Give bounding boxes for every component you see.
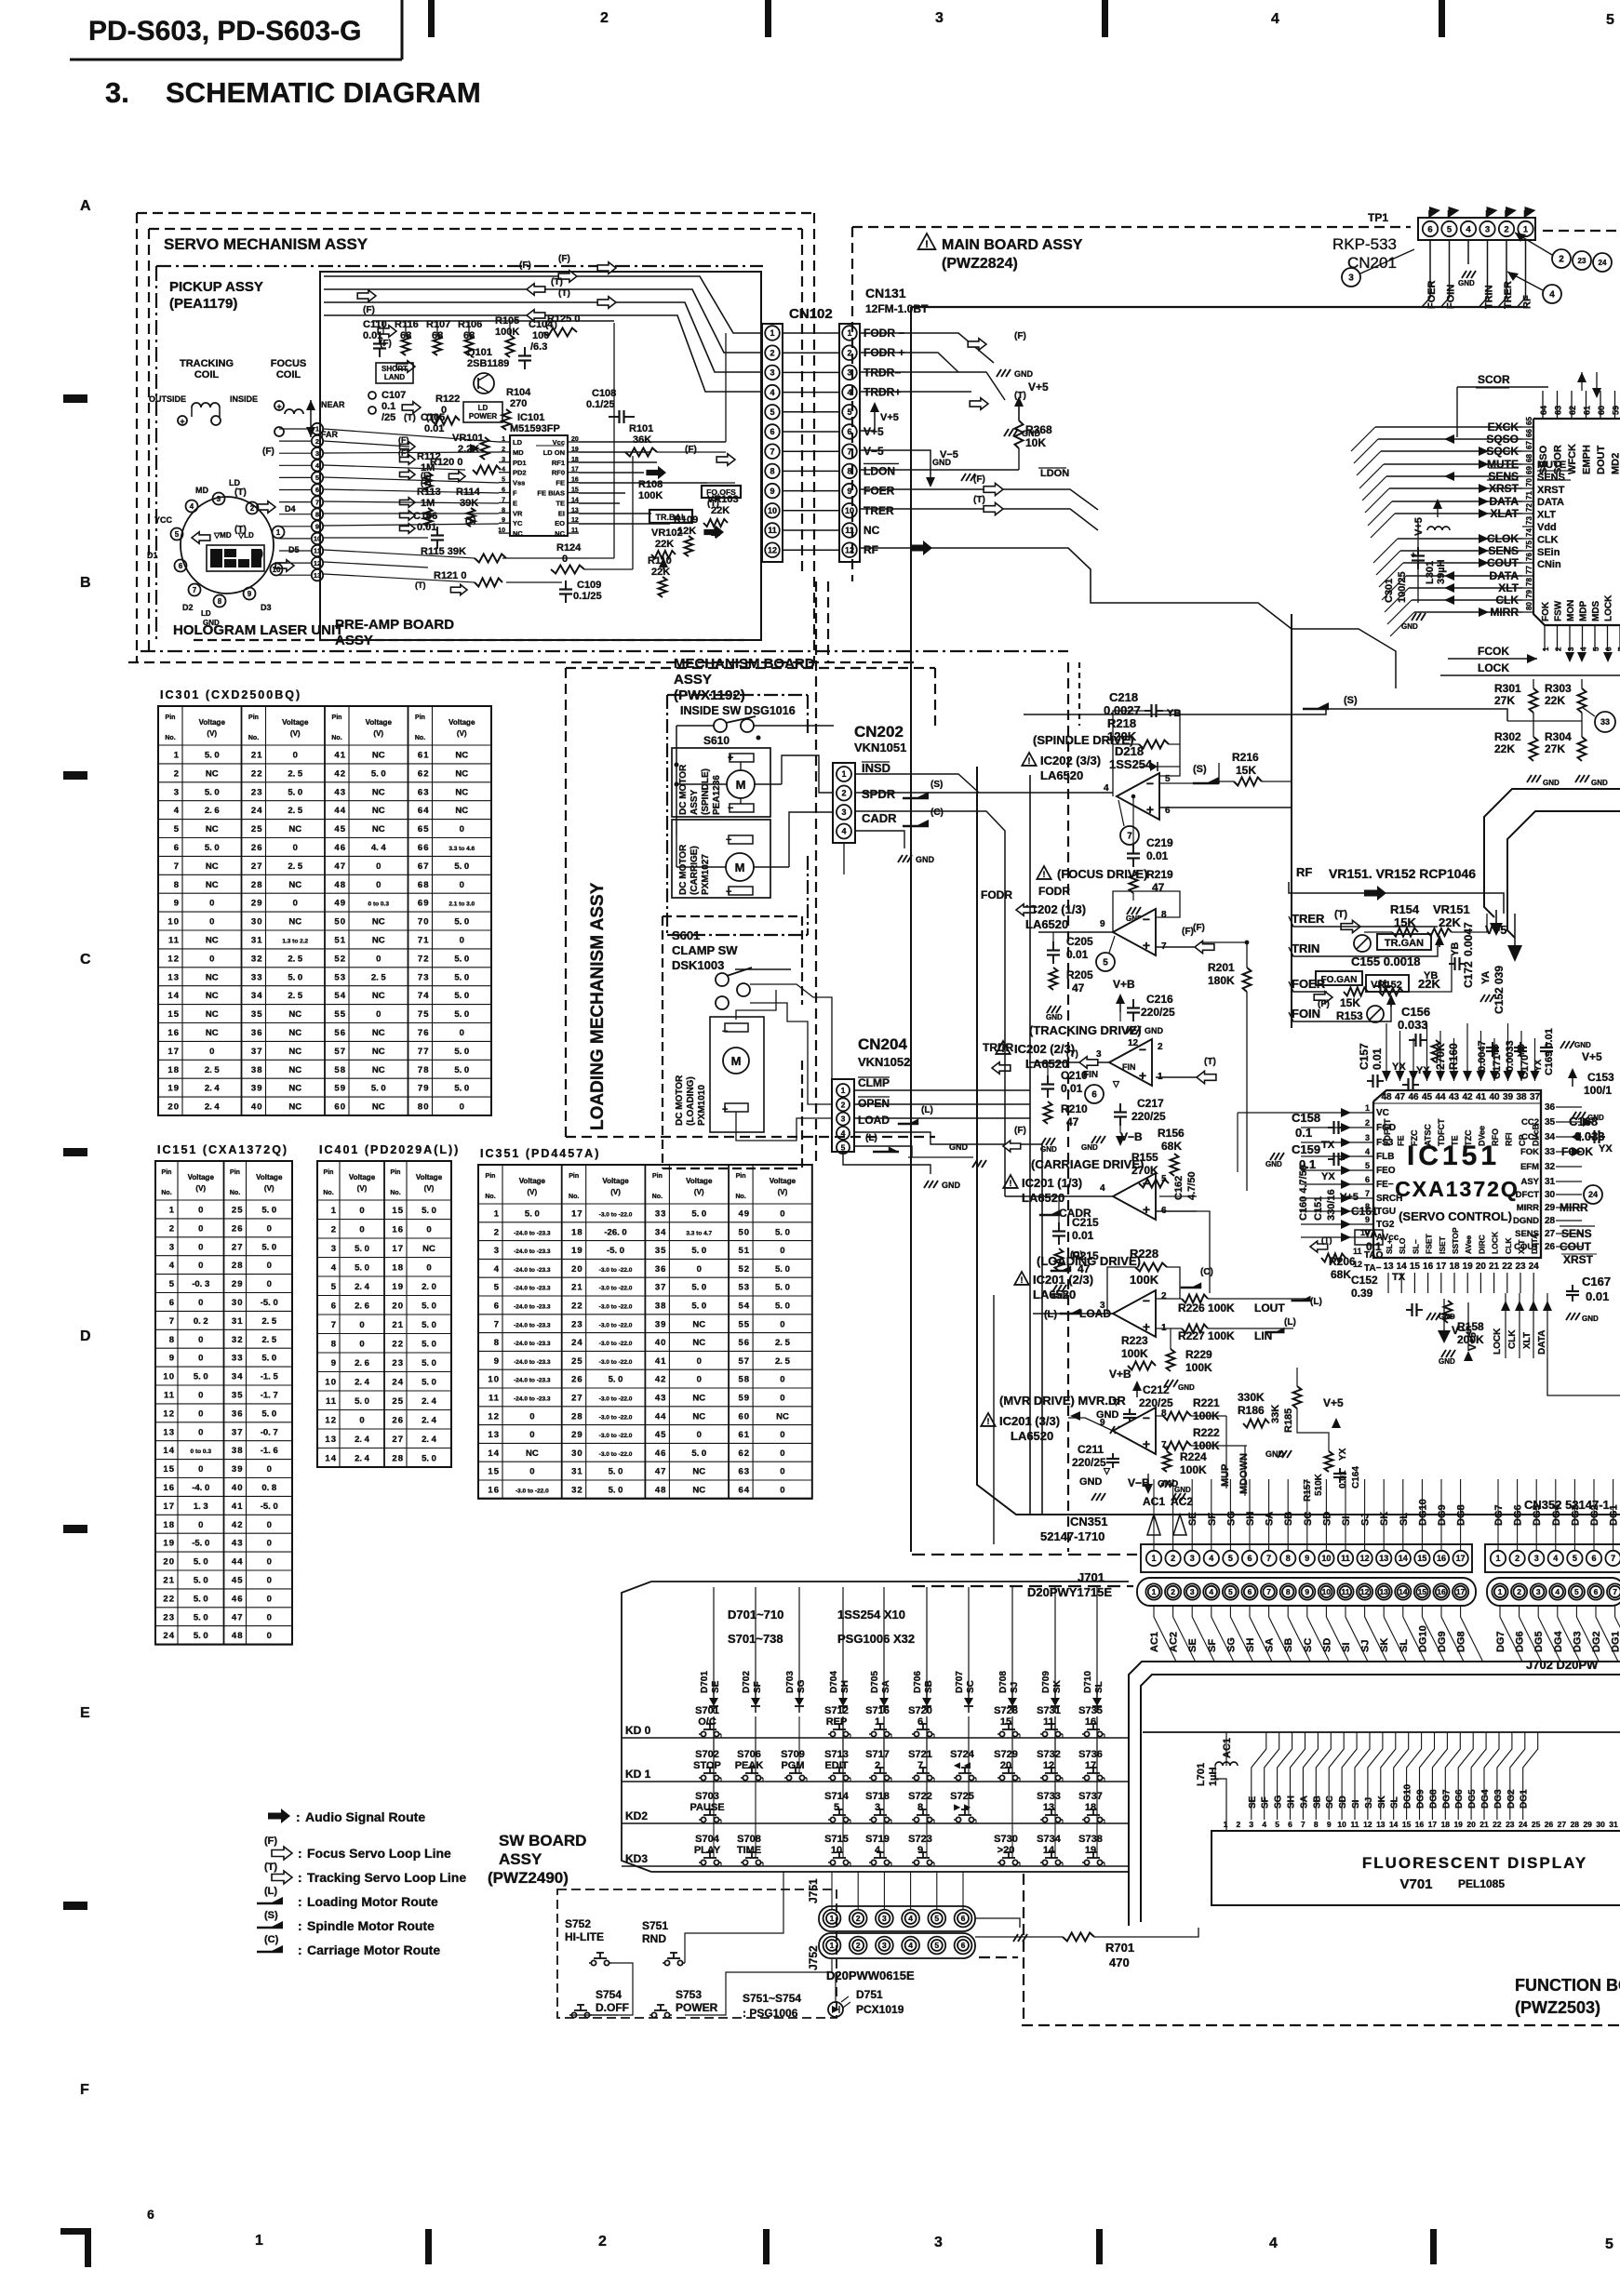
wires CN204	[854, 1089, 1030, 1091]
svg-text:STOP: STOP	[693, 1760, 721, 1771]
svg-text:5. 0: 5. 0	[422, 1206, 436, 1216]
svg-text:C157: C157	[1358, 1043, 1371, 1070]
svg-text:M: M	[735, 861, 745, 874]
svg-text:V+B: V+B	[1113, 978, 1135, 991]
svg-text:42: 42	[232, 1520, 244, 1530]
svg-text:41: 41	[1476, 1092, 1487, 1102]
svg-text:7: 7	[1301, 1820, 1305, 1829]
svg-text:23: 23	[1515, 1261, 1526, 1272]
svg-text:FGD: FGD	[1376, 1123, 1396, 1133]
svg-text:(T): (T)	[234, 487, 247, 498]
svg-text:5. 0: 5. 0	[261, 1242, 276, 1252]
svg-text:5: 5	[841, 1142, 846, 1152]
svg-text:270: 270	[510, 398, 527, 409]
wires CN202	[855, 774, 979, 793]
svg-text:11: 11	[489, 1393, 500, 1403]
svg-text:S725: S725	[950, 1791, 974, 1802]
svg-text:D710: D710	[1083, 1671, 1093, 1693]
svg-text:4: 4	[331, 1262, 337, 1273]
hologram laser unit circle	[181, 497, 274, 594]
svg-text:2: 2	[600, 10, 609, 26]
svg-text:C164: C164	[1351, 1466, 1361, 1488]
svg-text:10: 10	[831, 1845, 842, 1856]
svg-text:(L): (L)	[921, 1105, 933, 1115]
svg-text:2. 5: 2. 5	[205, 1065, 221, 1075]
capacitor C107	[368, 392, 376, 399]
svg-text:D4: D4	[285, 504, 296, 514]
svg-text:25: 25	[232, 1206, 244, 1216]
svg-text:+: +	[1143, 1436, 1150, 1451]
svg-text:20: 20	[1476, 1261, 1487, 1272]
svg-text:14: 14	[167, 991, 180, 1001]
svg-text:64: 64	[739, 1485, 751, 1495]
svg-text:12: 12	[1363, 1820, 1372, 1829]
svg-text:(F): (F)	[519, 260, 531, 271]
svg-text:46: 46	[655, 1448, 667, 1459]
svg-text:(V): (V)	[290, 729, 301, 738]
svg-text:6: 6	[961, 1914, 966, 1923]
svg-text:+: +	[1146, 802, 1154, 817]
svg-text:14: 14	[1043, 1845, 1055, 1856]
svg-text:C: C	[80, 952, 91, 968]
svg-text:5. 0: 5. 0	[194, 1557, 208, 1568]
svg-text:11: 11	[845, 526, 854, 535]
svg-text:NC: NC	[288, 824, 301, 834]
svg-text:22: 22	[392, 1339, 404, 1349]
svg-text:R104: R104	[506, 387, 531, 398]
svg-text:S601: S601	[672, 928, 700, 942]
svg-text:D708: D708	[998, 1671, 1009, 1693]
svg-text:4: 4	[1104, 783, 1109, 794]
svg-text:5. 0: 5. 0	[205, 843, 220, 853]
svg-text:3: 3	[847, 368, 851, 378]
svg-text:53: 53	[334, 972, 346, 982]
svg-text:V−5: V−5	[864, 445, 884, 458]
svg-text:62: 62	[739, 1448, 751, 1459]
ground R304	[1575, 775, 1580, 782]
svg-text:5: 5	[1447, 224, 1453, 234]
svg-text:31: 31	[571, 1467, 583, 1477]
svg-text:EMPH: EMPH	[1582, 445, 1593, 474]
svg-text:0: 0	[209, 917, 214, 928]
svg-text:S722: S722	[908, 1791, 932, 1802]
svg-text:R185: R185	[1283, 1408, 1294, 1433]
svg-text:LA6520: LA6520	[1033, 1288, 1076, 1302]
svg-text:LOCK: LOCK	[1604, 594, 1614, 621]
svg-text:13: 13	[1379, 1554, 1388, 1563]
svg-text:39µH: 39µH	[1436, 559, 1447, 584]
svg-text:2. 5: 2. 5	[775, 1356, 791, 1367]
svg-text:(T): (T)	[404, 413, 416, 423]
svg-text:6: 6	[961, 1941, 966, 1950]
svg-text:R229: R229	[1185, 1348, 1212, 1361]
svg-text:6: 6	[502, 487, 505, 494]
svg-text:12: 12	[1360, 1554, 1370, 1563]
svg-text:(F): (F)	[558, 254, 570, 264]
svg-text:-3.0 to -22.0: -3.0 to -22.0	[599, 1359, 633, 1366]
svg-text:1: 1	[502, 436, 505, 443]
svg-text:VR151: VR151	[1433, 902, 1470, 916]
svg-text:▽MD: ▽MD	[213, 531, 232, 540]
svg-text:3: 3	[1249, 1820, 1253, 1829]
svg-text:DG7: DG7	[1493, 1504, 1505, 1526]
svg-text:CXA1372Q: CXA1372Q	[1395, 1177, 1520, 1201]
circled 6	[1085, 1085, 1104, 1103]
bottom-left corner mark	[60, 2228, 91, 2235]
svg-text:5: 5	[494, 1283, 500, 1293]
svg-text:13: 13	[1043, 1802, 1054, 1813]
svg-text:14: 14	[163, 1446, 175, 1456]
svg-text:SL: SL	[1094, 1681, 1105, 1693]
svg-text:0: 0	[267, 1261, 272, 1271]
svg-text:FCOK: FCOK	[1478, 645, 1509, 658]
svg-text:62: 62	[1568, 406, 1577, 415]
svg-text:−: −	[1139, 1042, 1146, 1057]
svg-text:20: 20	[1000, 1760, 1011, 1771]
dashed border mechanism/main	[815, 581, 817, 1163]
svg-text:C217: C217	[1137, 1097, 1164, 1110]
svg-text:0: 0	[529, 1430, 534, 1440]
svg-text:S730: S730	[994, 1834, 1018, 1845]
svg-text:YA: YA	[1480, 971, 1492, 984]
svg-text:LD: LD	[478, 404, 489, 412]
svg-text:(L): (L)	[865, 1133, 877, 1143]
svg-text:GND: GND	[1265, 1160, 1282, 1168]
svg-text:FOK: FOK	[1520, 1147, 1539, 1157]
svg-text:(PWZ2824): (PWZ2824)	[942, 256, 1018, 272]
svg-text:17: 17	[1436, 1261, 1447, 1272]
svg-text:D709: D709	[1041, 1671, 1051, 1693]
svg-text:IC101: IC101	[517, 412, 544, 423]
svg-text:2: 2	[1515, 1554, 1520, 1563]
svg-text:0: 0	[697, 1264, 702, 1275]
wire TRDR+ top route	[324, 315, 763, 392]
svg-text:NC: NC	[455, 806, 468, 816]
svg-text:5. 0: 5. 0	[691, 1283, 706, 1293]
svg-text:SC: SC	[1303, 1512, 1314, 1526]
svg-text:D3: D3	[240, 561, 248, 567]
svg-text:(V): (V)	[457, 729, 467, 738]
svg-text:-3.0 to -22.0: -3.0 to -22.0	[515, 1488, 549, 1494]
svg-text:R218: R218	[1107, 716, 1136, 730]
svg-text:4: 4	[1269, 2236, 1278, 2251]
svg-text:64: 64	[1539, 406, 1548, 415]
svg-text:DG2: DG2	[1589, 1504, 1600, 1526]
svg-text:72: 72	[1525, 503, 1533, 512]
svg-text:CC1: CC1	[1521, 1132, 1540, 1142]
svg-text:39: 39	[232, 1464, 244, 1475]
svg-text:0: 0	[293, 751, 298, 761]
svg-text:10: 10	[167, 917, 180, 928]
svg-text:5. 0: 5. 0	[288, 787, 302, 797]
svg-text:23: 23	[1506, 1820, 1515, 1829]
svg-text:0: 0	[780, 1485, 784, 1495]
svg-text:12: 12	[845, 545, 854, 554]
svg-text:1: 1	[255, 2233, 263, 2249]
svg-text:R153: R153	[1336, 1009, 1363, 1022]
svg-text:66: 66	[418, 843, 430, 853]
svg-text:74: 74	[418, 991, 430, 1001]
svg-text:FLB: FLB	[1376, 1152, 1394, 1162]
svg-text:74: 74	[1525, 528, 1533, 537]
main board analog border	[977, 767, 1620, 1515]
svg-text:13: 13	[1379, 1587, 1388, 1596]
svg-text:2. 4: 2. 4	[422, 1435, 437, 1445]
svg-text:2. 4: 2. 4	[355, 1377, 370, 1387]
svg-text:NC: NC	[455, 768, 468, 779]
svg-text:R120 0: R120 0	[430, 457, 462, 468]
svg-text:R301: R301	[1494, 682, 1521, 695]
svg-text:+: +	[1139, 1068, 1146, 1083]
svg-text:MDOWN: MDOWN	[1238, 1453, 1250, 1494]
svg-text:0: 0	[697, 1375, 702, 1385]
svg-text:NC: NC	[288, 1065, 301, 1075]
svg-text:POWER: POWER	[469, 412, 497, 420]
svg-text:58: 58	[739, 1375, 751, 1385]
svg-text:2: 2	[1365, 1118, 1370, 1128]
svg-text:32: 32	[1545, 1162, 1556, 1172]
svg-text:61: 61	[739, 1430, 751, 1440]
pickup assy dash-dot box	[156, 265, 763, 267]
svg-text:E: E	[513, 499, 517, 507]
svg-text:V+5: V+5	[864, 425, 884, 438]
svg-text:22K: 22K	[1494, 742, 1515, 755]
svg-text:5. 0: 5. 0	[422, 1339, 436, 1349]
svg-text:DGND: DGND	[1513, 1216, 1539, 1226]
svg-text:/6.3: /6.3	[530, 341, 547, 353]
svg-text:2. 5: 2. 5	[261, 1316, 277, 1327]
svg-text:SF: SF	[753, 1681, 763, 1693]
svg-text:44: 44	[232, 1557, 244, 1568]
svg-text:FZC: FZC	[1410, 1129, 1419, 1146]
svg-text:33K: 33K	[1270, 1405, 1281, 1423]
svg-text:FLUORESCENT DISPLAY: FLUORESCENT DISPLAY	[1362, 1854, 1587, 1872]
svg-text:SB: SB	[1283, 1512, 1294, 1526]
svg-text:+: +	[1143, 1319, 1150, 1334]
svg-text:R228: R228	[1130, 1247, 1158, 1261]
svg-text:SH: SH	[1245, 1512, 1256, 1526]
svg-text:10: 10	[1321, 1554, 1331, 1563]
svg-text::: :	[298, 1942, 302, 1957]
svg-text:9: 9	[331, 1358, 337, 1368]
svg-text:6: 6	[1605, 647, 1613, 651]
svg-text:5. 0: 5. 0	[454, 1047, 469, 1057]
svg-text:CLAMP SW: CLAMP SW	[672, 943, 738, 957]
svg-text:FS3: FS3	[1376, 1138, 1394, 1148]
svg-text:DG10: DG10	[1417, 1499, 1428, 1526]
svg-text:NC: NC	[422, 1244, 435, 1254]
svg-text:71: 71	[1525, 491, 1533, 500]
svg-text:−: −	[1143, 912, 1150, 927]
svg-text:45: 45	[334, 824, 346, 834]
svg-text:DG6: DG6	[1513, 1504, 1524, 1526]
svg-text:9: 9	[1327, 1820, 1332, 1829]
svg-text:0: 0	[267, 1612, 272, 1622]
svg-text:NC: NC	[692, 1319, 705, 1329]
svg-text:Pin: Pin	[230, 1169, 240, 1176]
svg-text:SCHEMATIC DIAGRAM: SCHEMATIC DIAGRAM	[166, 76, 481, 109]
svg-text:C205: C205	[1066, 935, 1093, 948]
svg-text:0: 0	[198, 1391, 203, 1401]
svg-text:31: 31	[232, 1316, 244, 1327]
svg-text:SRCH: SRCH	[1376, 1194, 1402, 1204]
svg-text:76: 76	[1525, 553, 1533, 561]
svg-text:17: 17	[392, 1244, 404, 1254]
svg-text:48: 48	[655, 1485, 667, 1495]
svg-text:9: 9	[248, 590, 252, 598]
key matrix outer box	[622, 1582, 651, 1872]
svg-text:KD3: KD3	[625, 1852, 648, 1865]
svg-text:D702: D702	[742, 1671, 752, 1693]
svg-text:DG8: DG8	[1428, 1789, 1439, 1809]
svg-text:-3.0 to -22.0: -3.0 to -22.0	[599, 1433, 633, 1439]
svg-text:Voltage: Voltage	[256, 1173, 283, 1181]
svg-text:470: 470	[1109, 1956, 1130, 1969]
svg-text:LOADING MECHANISM ASSY: LOADING MECHANISM ASSY	[588, 882, 608, 1130]
svg-text:5. 0: 5. 0	[454, 972, 469, 982]
pickup wires to pin column	[279, 428, 312, 430]
svg-text:47: 47	[655, 1467, 667, 1477]
svg-text:NC: NC	[288, 917, 301, 928]
svg-text:VR: VR	[513, 509, 523, 517]
svg-text:Voltage: Voltage	[770, 1177, 797, 1185]
svg-text:5. 0: 5. 0	[609, 1485, 623, 1495]
svg-text:Carriage Motor Route: Carriage Motor Route	[307, 1942, 440, 1957]
svg-text:2: 2	[502, 447, 505, 453]
svg-text:NC: NC	[455, 787, 468, 797]
svg-text:(L): (L)	[264, 1886, 277, 1897]
fluorescent display fan wires	[1252, 1732, 1266, 1820]
TR.BAL box	[649, 510, 692, 523]
svg-text:8: 8	[1161, 910, 1167, 920]
svg-text:R223: R223	[1121, 1334, 1148, 1347]
svg-text:8: 8	[218, 597, 222, 606]
svg-text:NC: NC	[372, 1028, 385, 1038]
svg-text:76: 76	[418, 1028, 430, 1038]
CN102 connector	[762, 324, 783, 562]
circled 5	[1096, 953, 1115, 971]
svg-text:60: 60	[1597, 406, 1606, 415]
svg-text:CN351: CN351	[1070, 1515, 1107, 1528]
svg-text:(PWZ2490): (PWZ2490)	[488, 1869, 569, 1887]
svg-text:TZC: TZC	[1464, 1129, 1473, 1146]
svg-text:PEL1085: PEL1085	[1458, 1877, 1505, 1890]
svg-text:-3.0 to -22.0: -3.0 to -22.0	[599, 1267, 633, 1274]
svg-text:5. 0: 5. 0	[355, 1396, 369, 1407]
svg-text:21: 21	[1489, 1261, 1500, 1272]
svg-text:15K: 15K	[1340, 996, 1360, 1009]
svg-text:!: !	[1010, 1179, 1012, 1188]
svg-text:78: 78	[1525, 578, 1533, 586]
svg-text:SH: SH	[1287, 1795, 1297, 1809]
svg-text:11: 11	[571, 527, 579, 534]
svg-text:IC301 (CXD2500BQ): IC301 (CXD2500BQ)	[160, 688, 301, 701]
svg-text:TE: TE	[1451, 1135, 1460, 1146]
svg-text:36: 36	[251, 1028, 263, 1038]
svg-text:DG8: DG8	[1456, 1504, 1467, 1526]
svg-text:SG: SG	[1274, 1795, 1284, 1809]
svg-text:FE: FE	[1397, 1135, 1406, 1146]
svg-text:D5: D5	[288, 545, 300, 554]
svg-text:3: 3	[315, 449, 319, 458]
svg-text:56: 56	[334, 1028, 346, 1038]
svg-text:XLT: XLT	[1522, 1332, 1533, 1349]
svg-text:1: 1	[1152, 1587, 1157, 1596]
svg-text:NC: NC	[864, 524, 880, 537]
svg-text:Voltage: Voltage	[188, 1173, 215, 1181]
svg-text:PEA1236: PEA1236	[712, 775, 722, 815]
svg-text:NC: NC	[372, 1047, 385, 1057]
svg-text:FIN: FIN	[1122, 1062, 1136, 1072]
svg-text:R368: R368	[1025, 423, 1052, 436]
svg-text:69: 69	[418, 899, 430, 909]
pickup pin column circles	[312, 423, 323, 434]
svg-text:25: 25	[1532, 1820, 1541, 1829]
svg-text:0: 0	[209, 1047, 214, 1057]
svg-text:NC: NC	[206, 1028, 219, 1038]
svg-text:10: 10	[1337, 1820, 1346, 1829]
svg-text:6: 6	[147, 2207, 154, 2222]
svg-text:19: 19	[1453, 1820, 1463, 1829]
top ruler ticks	[428, 0, 435, 37]
svg-text:LD ON: LD ON	[543, 448, 565, 457]
svg-text:D4: D4	[226, 551, 234, 557]
svg-text:(V): (V)	[778, 1188, 788, 1196]
svg-text:SL: SL	[1390, 1796, 1400, 1809]
svg-text:GND: GND	[1014, 369, 1034, 379]
svg-text:(F): (F)	[398, 435, 409, 445]
svg-text:34: 34	[655, 1227, 667, 1237]
svg-text:C161: C161	[1351, 1205, 1378, 1218]
svg-text:FODR: FODR	[1038, 885, 1070, 898]
svg-text:D20PWW0615E: D20PWW0615E	[826, 1969, 915, 1982]
svg-text:5: 5	[502, 477, 505, 484]
svg-text:V+5: V+5	[1028, 380, 1049, 394]
svg-text:14: 14	[325, 1453, 337, 1463]
svg-text:Voltage: Voltage	[602, 1177, 629, 1185]
svg-text:(T): (T)	[264, 1862, 277, 1873]
svg-text:SE: SE	[1187, 1512, 1198, 1526]
svg-text:(V): (V)	[694, 1188, 704, 1196]
tracking wires	[1029, 1061, 1109, 1063]
svg-text:!: !	[925, 239, 929, 250]
svg-text:5. 0: 5. 0	[454, 917, 469, 928]
svg-text:S754: S754	[596, 1988, 622, 2001]
svg-text:12K: 12K	[677, 526, 696, 537]
svg-text:5. 0: 5. 0	[422, 1301, 436, 1311]
svg-text:17: 17	[1085, 1760, 1096, 1771]
svg-text:A: A	[80, 198, 91, 214]
svg-text:29: 29	[1583, 1820, 1592, 1829]
svg-text:22: 22	[163, 1594, 175, 1604]
svg-text:R219: R219	[1146, 868, 1173, 881]
svg-text:53: 53	[739, 1283, 751, 1293]
svg-text:Pin: Pin	[324, 1169, 334, 1176]
svg-text:3: 3	[841, 1115, 846, 1124]
svg-text:R101: R101	[629, 423, 653, 434]
svg-text:8: 8	[1286, 1554, 1291, 1563]
svg-text:10: 10	[273, 566, 281, 574]
svg-text:3: 3	[882, 1941, 887, 1950]
svg-text:ATSC: ATSC	[1424, 1124, 1433, 1146]
svg-text:YB: YB	[1450, 942, 1461, 956]
pickup vertical route arrows	[357, 290, 376, 302]
svg-text:(F): (F)	[363, 305, 375, 315]
svg-text:18: 18	[1449, 1261, 1460, 1272]
svg-text:18: 18	[392, 1262, 404, 1273]
svg-text:-24.0 to -23.3: -24.0 to -23.3	[514, 1230, 551, 1236]
left rail for drives	[1029, 775, 1031, 1515]
